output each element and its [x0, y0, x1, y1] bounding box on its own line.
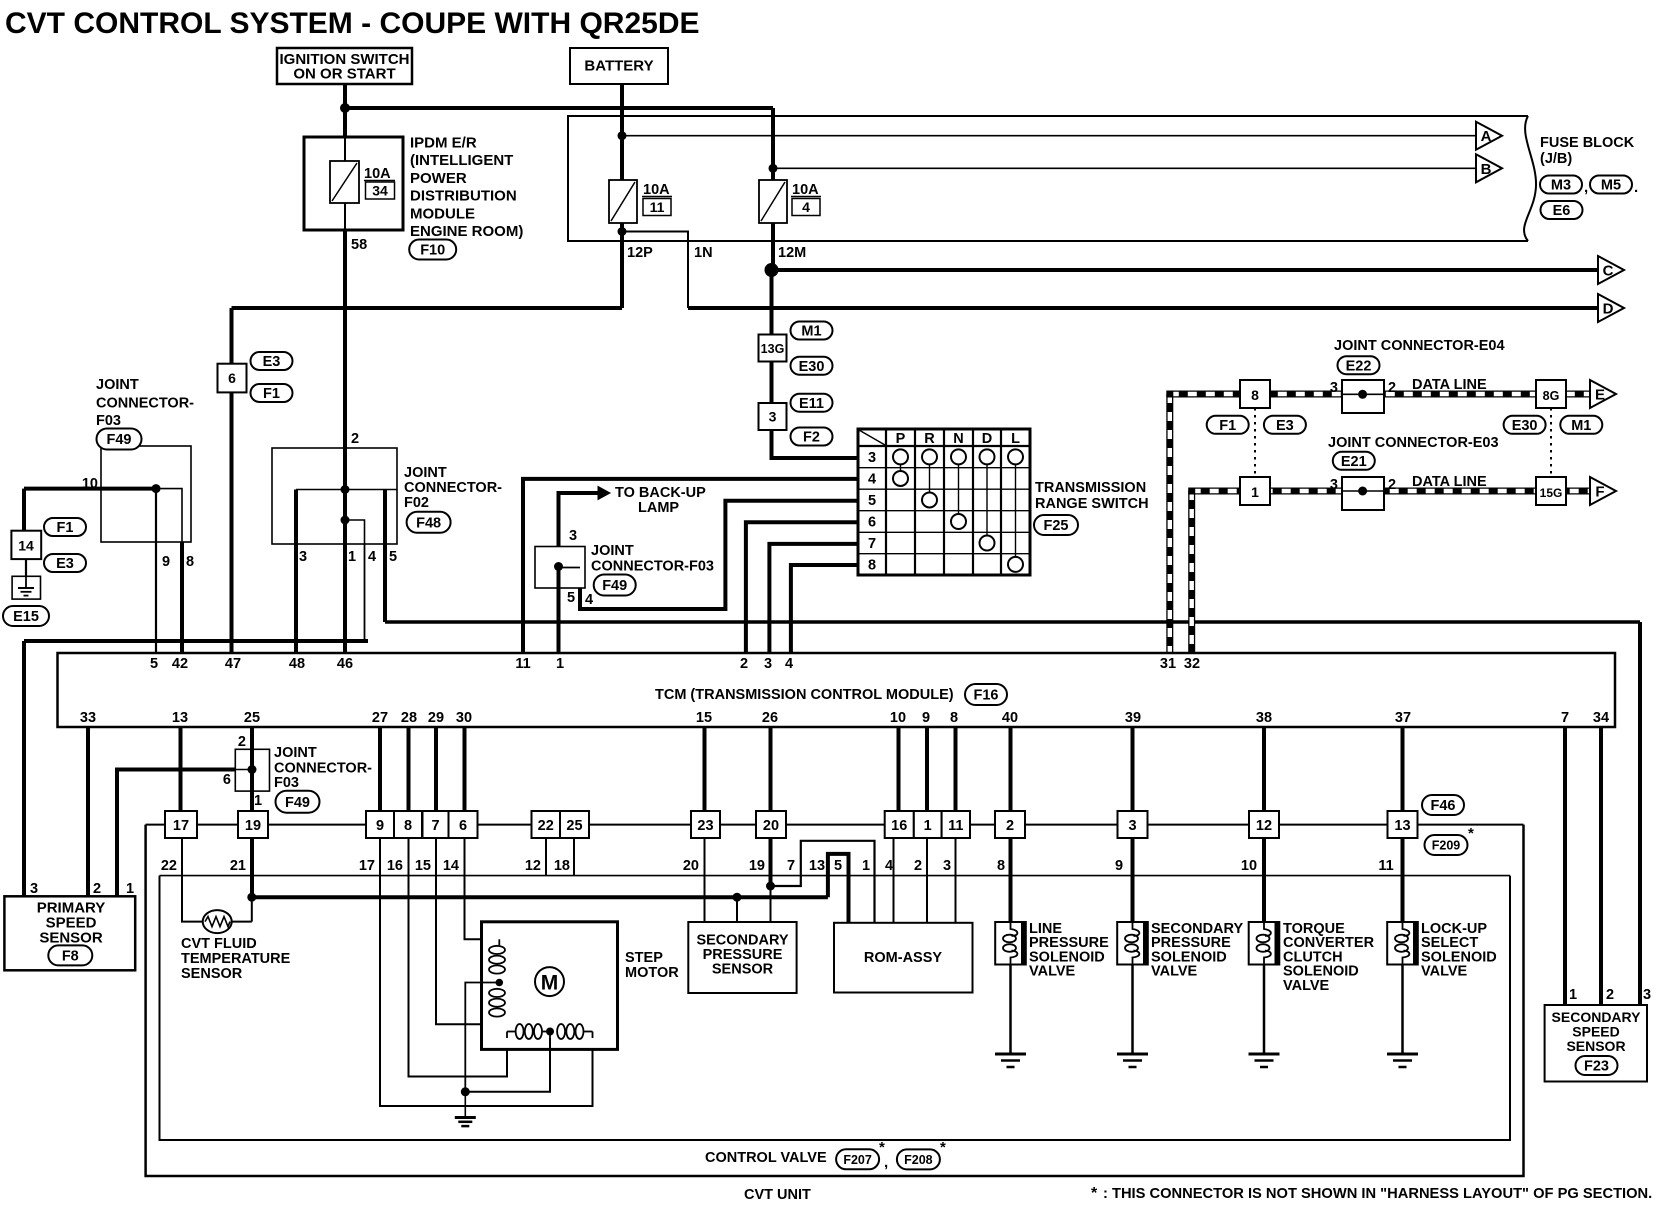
svg-text:F46: F46	[1431, 798, 1456, 814]
svg-text:F2: F2	[803, 430, 820, 446]
svg-text:4: 4	[868, 471, 876, 487]
svg-text:20: 20	[683, 858, 699, 874]
wire F03 internal to pin8	[156, 489, 182, 542]
connector F49 oval left	[97, 429, 142, 450]
svg-text:27: 27	[372, 710, 388, 726]
wire box22 to control valve pin12	[545, 838, 547, 876]
svg-text:10A: 10A	[364, 166, 391, 182]
svg-text:12M: 12M	[778, 245, 806, 261]
wire A line	[622, 135, 1476, 137]
wire TCM29 to box7	[434, 727, 438, 811]
svg-text:M1: M1	[801, 324, 821, 340]
connector F2 oval	[791, 428, 833, 446]
wire box9 to step motor coil D	[380, 838, 593, 1106]
wire box23 to SPS pin1	[704, 838, 706, 922]
wire TCM39 to box3	[1131, 727, 1135, 811]
joint connector F02 box	[272, 448, 397, 544]
svg-text:F02: F02	[404, 495, 429, 511]
svg-text:2: 2	[1388, 477, 1396, 493]
svg-text:17: 17	[173, 818, 189, 834]
svg-text:M5: M5	[1601, 178, 1621, 194]
svg-text:39: 39	[1125, 710, 1141, 726]
svg-text:ON OR START: ON OR START	[293, 66, 395, 83]
svg-text:F209: F209	[1432, 839, 1461, 853]
svg-text:12: 12	[525, 858, 541, 874]
svg-text:B: B	[1481, 161, 1492, 178]
wire TCM28 to box8	[407, 727, 411, 811]
data line E vertical	[1166, 394, 1173, 653]
connector F10 oval	[409, 240, 456, 260]
svg-text:40: 40	[1002, 710, 1018, 726]
svg-text:E22: E22	[1346, 358, 1372, 374]
secondary pressure sensor box	[688, 922, 796, 993]
wire down to fuse 4	[771, 108, 775, 180]
wire staple to ROM pin5	[828, 854, 849, 923]
svg-text:2: 2	[1006, 818, 1014, 834]
svg-text:ROM-ASSY: ROM-ASSY	[864, 950, 942, 966]
wire D line	[688, 306, 1598, 310]
connector F49 oval mid	[594, 575, 636, 596]
svg-text:F16: F16	[974, 688, 999, 704]
svg-text:4: 4	[368, 549, 376, 565]
connector F23 oval	[1576, 1056, 1618, 1075]
wire box to line solenoid	[1009, 838, 1013, 922]
arrow C	[1598, 256, 1624, 284]
control valve box	[160, 876, 1511, 1140]
wire 12P down to TCM 47	[230, 308, 234, 658]
node 12M junction	[765, 263, 779, 277]
svg-text:29: 29	[428, 710, 444, 726]
svg-text:23: 23	[697, 818, 713, 834]
svg-text:4: 4	[802, 199, 810, 215]
svg-text:SENSOR: SENSOR	[1566, 1038, 1625, 1054]
svg-text:38: 38	[1256, 710, 1272, 726]
wire 12P down	[620, 223, 624, 308]
node F03 small dot	[248, 765, 257, 774]
svg-text:16: 16	[387, 858, 403, 874]
step motor M circle	[535, 967, 564, 996]
svg-text:25: 25	[566, 818, 582, 834]
dotted link 8G-15G	[1550, 408, 1552, 477]
svg-text:DATA LINE: DATA LINE	[1412, 474, 1487, 490]
label 14 box	[11, 531, 41, 559]
wire TCM33 to primary speed sensor pin2	[86, 727, 90, 896]
label 3 box connector	[759, 403, 787, 430]
wire F03 pin9 down to TCM 5	[155, 489, 157, 658]
svg-text:8: 8	[186, 554, 194, 570]
svg-text:2: 2	[1388, 380, 1396, 396]
svg-text:E15: E15	[13, 609, 39, 625]
wire box to torque solenoid	[1262, 838, 1266, 922]
svg-text:F: F	[1595, 484, 1604, 501]
svg-text:P: P	[896, 431, 906, 447]
svg-text:F03: F03	[96, 413, 121, 429]
svg-text:ENGINE ROOM): ENGINE ROOM)	[410, 223, 523, 240]
svg-text:DISTRIBUTION: DISTRIBUTION	[410, 188, 517, 205]
svg-text:LAMP: LAMP	[638, 500, 679, 516]
wire bus y897	[252, 895, 828, 899]
data line corner patches	[1166, 391, 1173, 398]
wire F03 small internal	[235, 769, 252, 771]
wire 12P left run	[232, 306, 623, 310]
connector E30 oval data	[1504, 416, 1546, 434]
svg-text:E3: E3	[263, 354, 281, 370]
wire F02 pin5 long down	[1638, 622, 1642, 1005]
wire lock-up solenoid to ground	[1401, 965, 1404, 1055]
svg-text:10: 10	[82, 476, 98, 492]
svg-text:10: 10	[890, 710, 906, 726]
svg-text:CVT FLUID: CVT FLUID	[181, 936, 257, 952]
svg-text:M1: M1	[1571, 418, 1591, 434]
svg-text:C: C	[1603, 263, 1614, 280]
wire box to lock-up solenoid	[1401, 838, 1405, 922]
step motor coil D	[557, 1024, 565, 1039]
svg-text:14: 14	[18, 538, 34, 554]
svg-text:F49: F49	[602, 578, 627, 594]
wire box11 to ROM pin3	[955, 838, 957, 923]
ground line solenoid	[995, 1053, 1026, 1056]
svg-text:F23: F23	[1584, 1059, 1609, 1075]
svg-text:2: 2	[238, 734, 246, 750]
svg-text:6: 6	[868, 515, 876, 531]
svg-text:10: 10	[1241, 858, 1257, 874]
joint connector F03 small box	[235, 749, 269, 791]
svg-text:L: L	[1011, 431, 1020, 447]
wire secondary solenoid to ground	[1131, 965, 1134, 1055]
svg-text:11: 11	[948, 818, 963, 834]
svg-text:4: 4	[585, 592, 593, 608]
svg-text:POWER: POWER	[410, 170, 467, 187]
svg-text:1: 1	[556, 656, 564, 672]
svg-text:9: 9	[162, 554, 170, 570]
svg-text:SENSOR: SENSOR	[181, 966, 243, 982]
svg-text:RANGE SWITCH: RANGE SWITCH	[1035, 496, 1149, 512]
wire TCM8 to box11	[954, 727, 958, 811]
wire ground bus y641	[24, 639, 368, 643]
svg-text:F49: F49	[285, 795, 310, 811]
svg-text:CONTROL VALVE: CONTROL VALVE	[705, 1150, 827, 1166]
svg-text:E30: E30	[1512, 418, 1538, 434]
connector E21 oval	[1333, 452, 1375, 470]
svg-text:2: 2	[351, 431, 359, 447]
range switch header diagonal	[859, 430, 885, 445]
wire ignition to junction	[343, 84, 347, 137]
wire top horizontal bus	[345, 106, 773, 110]
wire F03 small through	[250, 749, 254, 791]
step motor coil A	[489, 946, 505, 954]
node fuse11 bottom junction	[618, 227, 627, 236]
svg-text:1: 1	[348, 549, 356, 565]
primary speed sensor box	[4, 896, 135, 970]
label 13G box	[759, 335, 787, 362]
svg-text:BATTERY: BATTERY	[584, 58, 653, 75]
svg-text:TCM (TRANSMISSION CONTROL MODU: TCM (TRANSMISSION CONTROL MODULE)	[655, 687, 954, 703]
wire box to secondary solenoid	[1131, 838, 1135, 922]
wire TCM30 to box6	[463, 727, 467, 811]
svg-text:VALVE: VALVE	[1029, 964, 1076, 980]
wire C line	[772, 268, 1599, 272]
svg-text:7: 7	[431, 818, 439, 834]
connector E30 oval	[791, 357, 833, 375]
wire TCM27 to box9	[378, 727, 382, 811]
svg-text:13: 13	[809, 858, 825, 874]
svg-text:11: 11	[650, 199, 665, 215]
svg-text:,: ,	[1584, 179, 1588, 196]
CVT fluid temperature sensor	[203, 910, 232, 933]
wire F02 pin4 down to bus	[364, 544, 366, 641]
wire F03 small down to box19	[250, 791, 254, 811]
svg-text:12: 12	[1256, 818, 1272, 834]
lock-up select solenoid valve coil	[1387, 922, 1418, 965]
svg-text:7: 7	[787, 858, 795, 874]
wire F02 internal row1	[296, 489, 397, 491]
connector E3 oval left	[44, 554, 86, 572]
joint connector E03 box	[1342, 477, 1384, 510]
svg-text:46: 46	[337, 656, 353, 672]
wire 12M to 13G	[770, 270, 774, 335]
wire row4 to TCM 11	[523, 479, 858, 658]
svg-text:5: 5	[834, 858, 842, 874]
wire box16 to ROM pin4	[893, 838, 895, 923]
connector E3 oval data	[1264, 416, 1306, 434]
svg-text:21: 21	[230, 858, 246, 874]
svg-text:F1: F1	[57, 520, 74, 536]
range switch contact circles	[893, 449, 908, 464]
svg-text:12P: 12P	[627, 245, 653, 261]
battery box	[570, 48, 668, 84]
wire box25 to control valve pin18	[573, 838, 575, 876]
svg-text:11: 11	[1378, 858, 1393, 874]
control valve top edge	[160, 875, 1511, 877]
svg-text:(J/B): (J/B)	[1540, 151, 1572, 167]
wire 13G to 3 box	[770, 362, 774, 404]
label 34 box	[366, 182, 395, 199]
wire row8 to TCM 4	[791, 565, 858, 658]
svg-text:E11: E11	[799, 396, 824, 412]
IPDM E/R box	[304, 137, 403, 230]
svg-text:JOINT CONNECTOR-E04: JOINT CONNECTOR-E04	[1334, 338, 1505, 354]
connector F208 oval	[897, 1149, 940, 1169]
connector E11 oval	[791, 394, 833, 412]
svg-text:CVT CONTROL SYSTEM - COUPE WIT: CVT CONTROL SYSTEM - COUPE WITH QR25DE	[5, 7, 700, 40]
svg-text:6: 6	[223, 772, 231, 788]
connector F25 oval	[1034, 515, 1078, 535]
label 8G box	[1536, 380, 1566, 408]
connector F1 oval top	[251, 384, 293, 402]
step motor coil C	[516, 1024, 524, 1039]
label 15G box	[1536, 477, 1566, 505]
svg-text:F25: F25	[1044, 518, 1069, 534]
svg-text:VALVE: VALVE	[1151, 964, 1198, 980]
svg-text:F48: F48	[416, 516, 441, 532]
wire 1N jog	[622, 232, 688, 309]
arrow A	[1476, 122, 1502, 150]
svg-text:1: 1	[862, 858, 870, 874]
arrow F	[1590, 477, 1616, 505]
wire F02 pin5 down	[383, 490, 387, 623]
data line E horizontal	[1170, 391, 1590, 398]
svg-text:6: 6	[459, 818, 467, 834]
secondary pressure solenoid valve coil	[1117, 922, 1148, 965]
wire torque solenoid to ground	[1263, 965, 1266, 1055]
svg-text:F03: F03	[274, 775, 299, 791]
svg-text:SENSOR: SENSOR	[712, 962, 774, 978]
joint connector E04 box	[1342, 380, 1384, 413]
svg-text:E6: E6	[1553, 203, 1571, 219]
svg-text:3: 3	[569, 528, 577, 544]
wire IPDM pin 58 down	[343, 230, 347, 448]
svg-text:A: A	[1481, 128, 1492, 145]
svg-text:JOINT CONNECTOR-E03: JOINT CONNECTOR-E03	[1328, 435, 1499, 451]
fuse 34 10A	[330, 161, 359, 203]
svg-text:14: 14	[443, 858, 459, 874]
svg-text:15G: 15G	[1540, 486, 1563, 500]
wire SPS middle pin	[736, 897, 738, 922]
node F03 dot	[152, 484, 161, 493]
svg-text:,: ,	[884, 1154, 888, 1171]
node SPS middle pin dot	[733, 893, 742, 902]
wire F03 pin5 to TCM 1	[557, 567, 561, 659]
wire line solenoid to ground	[1009, 965, 1012, 1055]
transmission range switch grid	[858, 429, 1030, 575]
connector F16 oval	[965, 684, 1007, 705]
svg-text:7: 7	[868, 536, 876, 552]
connector M3 oval	[1540, 176, 1582, 194]
svg-text:15: 15	[415, 858, 431, 874]
svg-text:13: 13	[172, 710, 188, 726]
svg-text:1: 1	[126, 881, 134, 897]
node temp sensor bus dot	[247, 893, 256, 902]
svg-text:47: 47	[225, 656, 241, 672]
svg-text:26: 26	[762, 710, 778, 726]
svg-text:*: *	[1091, 1185, 1098, 1202]
connector E15 oval	[3, 606, 49, 626]
svg-text:E30: E30	[799, 359, 825, 375]
svg-text:25: 25	[244, 710, 260, 726]
svg-text:JOINT: JOINT	[404, 465, 447, 481]
label 8 box data	[1240, 380, 1270, 408]
data line F vertical	[1188, 491, 1195, 653]
svg-text:JOINT: JOINT	[274, 745, 317, 761]
ground secondary solenoid	[1117, 1053, 1148, 1056]
label 1 box data	[1240, 477, 1270, 505]
svg-text:: THIS CONNECTOR IS NOT SHOWN: : THIS CONNECTOR IS NOT SHOWN IN "HARNES…	[1103, 1186, 1652, 1202]
connector F49 oval small	[276, 791, 320, 813]
svg-text:22: 22	[538, 818, 554, 834]
svg-text:8: 8	[997, 858, 1005, 874]
svg-text:F1: F1	[263, 386, 280, 402]
svg-text:17: 17	[359, 858, 375, 874]
wire 14 to ground	[25, 559, 27, 576]
connector M1 oval	[791, 322, 833, 340]
svg-text:FUSE BLOCK: FUSE BLOCK	[1540, 135, 1635, 151]
svg-text:11: 11	[515, 656, 530, 672]
arrow B	[1476, 154, 1502, 182]
ignition switch box	[277, 48, 412, 84]
svg-text:34: 34	[372, 183, 388, 199]
node F02 dot2	[341, 516, 350, 525]
svg-text:42: 42	[172, 656, 188, 672]
svg-text:15: 15	[696, 710, 712, 726]
svg-text:6: 6	[228, 370, 236, 386]
node battery-A junction	[618, 131, 627, 140]
wire TCM15 to box23	[703, 727, 707, 811]
wire box19 to junction	[250, 838, 254, 897]
svg-text:3: 3	[299, 549, 307, 565]
svg-text:13: 13	[1394, 818, 1410, 834]
torque converter clutch solenoid valve coil	[1249, 922, 1280, 965]
svg-text:1: 1	[1251, 484, 1259, 500]
svg-text:D: D	[1603, 301, 1614, 318]
wire coil CD tap to ground	[465, 1038, 550, 1092]
svg-text:PRESSURE: PRESSURE	[703, 947, 783, 963]
svg-text:31: 31	[1160, 656, 1176, 672]
svg-text:IPDM E/R: IPDM E/R	[410, 135, 477, 152]
svg-text:30: 30	[456, 710, 472, 726]
connector F1 oval data	[1207, 416, 1249, 434]
CVT unit top edge	[146, 824, 1524, 826]
ground lock-up solenoid	[1387, 1053, 1418, 1056]
connector M5 oval	[1590, 176, 1632, 194]
arrow D	[1598, 294, 1624, 322]
svg-text:58: 58	[351, 237, 367, 253]
connector row boxes	[165, 811, 197, 838]
svg-text:E3: E3	[56, 556, 74, 572]
svg-text:19: 19	[749, 858, 765, 874]
node B junction	[769, 164, 778, 173]
wire box1 to ROM pin2	[926, 838, 928, 923]
connector F207 oval	[836, 1149, 879, 1169]
connector F46 oval	[1422, 795, 1464, 815]
wire TCM10 to box16	[897, 727, 901, 811]
svg-text:3: 3	[1643, 987, 1651, 1003]
svg-text:F1: F1	[1219, 418, 1236, 434]
wire box7 to step motor coil B	[436, 838, 499, 1024]
svg-text:TRANSMISSION: TRANSMISSION	[1035, 480, 1146, 496]
svg-text:4: 4	[785, 656, 793, 672]
svg-text:2: 2	[93, 881, 101, 897]
svg-text:E3: E3	[1276, 418, 1294, 434]
fuse block J/B outline	[568, 116, 1528, 241]
svg-text:D: D	[982, 431, 992, 447]
wire TCM37 to box13	[1401, 727, 1405, 811]
wire row6 to TCM 2	[746, 522, 858, 658]
wire TCM40 to box2	[1009, 727, 1013, 811]
svg-text:10A: 10A	[643, 182, 670, 198]
wire F03 mid dot link	[559, 567, 581, 569]
svg-text:34: 34	[1593, 710, 1609, 726]
svg-text:(INTELLIGENT: (INTELLIGENT	[410, 152, 513, 169]
svg-text:2: 2	[1606, 987, 1614, 1003]
svg-text:CONNECTOR-F03: CONNECTOR-F03	[591, 559, 714, 575]
svg-text:8G: 8G	[1543, 389, 1560, 403]
dotted link 8-1	[1254, 408, 1256, 477]
arrow E	[1590, 380, 1616, 408]
ROM-ASSY box	[834, 923, 973, 993]
wire TCM9 to box1	[925, 727, 929, 811]
arrow to back-up lamp	[598, 487, 610, 500]
svg-text:3: 3	[1330, 477, 1338, 493]
node E03 dot	[1358, 487, 1367, 496]
wire 12M down	[771, 223, 775, 270]
wire F02 pin5 run right	[385, 620, 1640, 624]
svg-text:1: 1	[254, 793, 262, 809]
node box20 junction	[766, 882, 775, 891]
svg-text:5: 5	[389, 549, 397, 565]
wire to ground symbol	[464, 1092, 466, 1118]
wire TCM26 to box20	[769, 727, 773, 811]
svg-text:13G: 13G	[761, 342, 785, 356]
